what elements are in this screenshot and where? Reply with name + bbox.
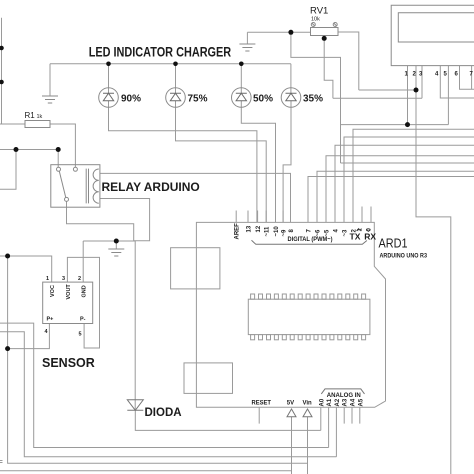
svg-text:3: 3 bbox=[62, 276, 65, 282]
svg-text:DIGITAL (PWM~): DIGITAL (PWM~) bbox=[288, 237, 333, 243]
svg-text:ANALOG IN: ANALOG IN bbox=[327, 393, 361, 399]
svg-text:1: 1 bbox=[46, 276, 49, 282]
svg-text:SENSOR: SENSOR bbox=[42, 356, 95, 370]
svg-text:DIODA: DIODA bbox=[145, 407, 182, 419]
svg-text:~6: ~6 bbox=[315, 229, 321, 237]
svg-text:RESET: RESET bbox=[252, 401, 272, 407]
svg-text:13: 13 bbox=[246, 225, 252, 232]
svg-text:ARD1: ARD1 bbox=[379, 236, 408, 251]
svg-text:A0: A0 bbox=[319, 398, 325, 406]
svg-text:5: 5 bbox=[79, 332, 82, 338]
svg-text:A1: A1 bbox=[327, 398, 333, 406]
svg-text:50%: 50% bbox=[253, 94, 273, 105]
svg-text:90%: 90% bbox=[121, 94, 141, 105]
svg-text:P-: P- bbox=[80, 317, 86, 323]
svg-text:VOC: VOC bbox=[50, 285, 56, 297]
svg-text:2: 2 bbox=[78, 276, 81, 282]
svg-text:~11: ~11 bbox=[265, 226, 271, 237]
svg-text:R1: R1 bbox=[25, 111, 36, 120]
svg-text:~5: ~5 bbox=[324, 229, 330, 237]
svg-text:RV1: RV1 bbox=[310, 6, 328, 17]
svg-text:A4: A4 bbox=[351, 398, 357, 406]
svg-text:Vin: Vin bbox=[303, 401, 313, 407]
svg-text:5V: 5V bbox=[287, 401, 294, 407]
svg-text:35%: 35% bbox=[303, 94, 323, 105]
svg-text:~9: ~9 bbox=[282, 229, 288, 237]
svg-text:75%: 75% bbox=[188, 94, 208, 105]
svg-text:RELAY ARDUINO: RELAY ARDUINO bbox=[102, 180, 200, 194]
svg-text:VOUT: VOUT bbox=[66, 284, 72, 300]
svg-text:A2: A2 bbox=[335, 398, 341, 406]
svg-text:A3: A3 bbox=[343, 398, 349, 406]
svg-text:LED INDICATOR CHARGER: LED INDICATOR CHARGER bbox=[89, 45, 232, 60]
svg-text:10k: 10k bbox=[311, 17, 320, 23]
svg-text:1k: 1k bbox=[37, 114, 43, 120]
svg-text:~3: ~3 bbox=[342, 229, 348, 237]
svg-text:12: 12 bbox=[256, 225, 262, 232]
svg-text:A5: A5 bbox=[358, 398, 364, 406]
svg-text:~10: ~10 bbox=[274, 226, 280, 237]
svg-text:GND: GND bbox=[82, 285, 88, 297]
svg-text:RX: RX bbox=[364, 232, 376, 242]
svg-text:AREF: AREF bbox=[235, 223, 241, 240]
svg-text:ARDUINO UNO R3: ARDUINO UNO R3 bbox=[380, 254, 428, 260]
svg-text:P+: P+ bbox=[47, 317, 54, 323]
